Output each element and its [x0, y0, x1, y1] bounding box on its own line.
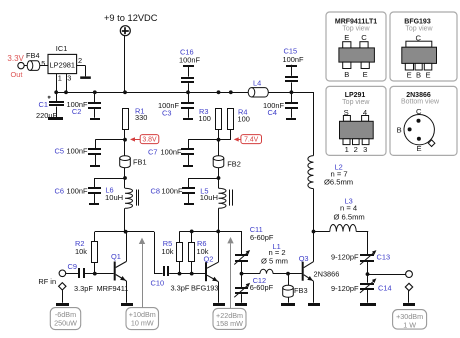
- svg-text:220uF: 220uF: [36, 111, 57, 120]
- svg-text:C9: C9: [68, 262, 77, 271]
- svg-text:+9 to 12VDC: +9 to 12VDC: [104, 13, 158, 23]
- svg-text:Ø6.5mm: Ø6.5mm: [324, 178, 353, 187]
- svg-text:B: B: [344, 70, 349, 79]
- svg-text:C8: C8: [151, 187, 160, 196]
- svg-text:E: E: [344, 33, 349, 42]
- svg-text:2N3866: 2N3866: [314, 269, 340, 278]
- svg-text:3: 3: [67, 74, 71, 83]
- svg-text:E: E: [416, 144, 421, 153]
- svg-text:C5: C5: [55, 146, 64, 155]
- svg-text:C13: C13: [377, 252, 391, 261]
- svg-text:3.3V: 3.3V: [7, 54, 24, 63]
- svg-text:IC1: IC1: [56, 44, 68, 53]
- svg-text:RF in: RF in: [38, 277, 56, 286]
- svg-text:3.3pF: 3.3pF: [74, 284, 93, 293]
- svg-text:5: 5: [41, 59, 45, 68]
- svg-text:250uW: 250uW: [54, 318, 77, 327]
- svg-text:Top view: Top view: [405, 26, 433, 33]
- svg-text:100: 100: [238, 115, 250, 124]
- svg-text:100nF: 100nF: [179, 56, 200, 65]
- svg-text:Top view: Top view: [342, 26, 370, 33]
- svg-text:10 mW: 10 mW: [131, 318, 154, 327]
- svg-text:B: B: [416, 71, 421, 80]
- svg-text:C: C: [416, 107, 422, 116]
- svg-text:Out: Out: [11, 70, 23, 79]
- svg-text:C3: C3: [162, 108, 171, 117]
- svg-text:Bottom view: Bottom view: [401, 99, 440, 106]
- svg-text:2: 2: [78, 56, 82, 65]
- svg-text:C14: C14: [378, 284, 392, 293]
- svg-text:3.8V: 3.8V: [142, 137, 157, 144]
- svg-text:Q3: Q3: [299, 254, 309, 263]
- svg-text:BFG193: BFG193: [191, 284, 219, 293]
- svg-text:n = 4: n = 4: [340, 204, 357, 213]
- svg-text:100nF: 100nF: [161, 148, 182, 157]
- svg-text:330: 330: [135, 113, 147, 122]
- svg-text:158 mW: 158 mW: [216, 319, 243, 328]
- svg-text:100nF: 100nF: [283, 55, 304, 64]
- svg-text:6-60pF: 6-60pF: [250, 233, 274, 242]
- svg-text:B: B: [397, 126, 402, 135]
- svg-text:6-60pF: 6-60pF: [250, 283, 274, 292]
- svg-text:MRF9411LT1: MRF9411LT1: [335, 18, 377, 25]
- svg-text:100nF: 100nF: [67, 146, 88, 155]
- svg-text:3.3pF: 3.3pF: [171, 283, 190, 292]
- svg-text:FB4: FB4: [26, 51, 40, 60]
- svg-text:10uH: 10uH: [200, 193, 218, 202]
- svg-text:BFG193: BFG193: [404, 18, 431, 25]
- svg-text:7.4V: 7.4V: [244, 137, 259, 144]
- svg-text:Q1: Q1: [111, 252, 121, 261]
- svg-text:C: C: [361, 33, 367, 42]
- svg-text:E: E: [363, 70, 368, 79]
- svg-text:E: E: [407, 71, 412, 80]
- svg-text:1: 1: [58, 74, 62, 83]
- svg-text:FB1: FB1: [133, 157, 147, 166]
- svg-text:C4: C4: [268, 108, 277, 117]
- svg-text:Top view: Top view: [342, 99, 370, 106]
- svg-text:Q2: Q2: [204, 254, 214, 263]
- svg-text:2: 2: [354, 145, 358, 154]
- svg-text:C7: C7: [148, 148, 157, 157]
- svg-text:L4: L4: [253, 79, 261, 88]
- svg-text:100nF: 100nF: [162, 187, 183, 196]
- svg-text:C6: C6: [55, 186, 64, 195]
- svg-text:9-120pF: 9-120pF: [331, 252, 359, 261]
- svg-text:1 W: 1 W: [403, 320, 416, 329]
- svg-text:100nF: 100nF: [67, 186, 88, 195]
- svg-text:LP291: LP291: [345, 92, 366, 99]
- svg-text:10k: 10k: [162, 247, 174, 256]
- svg-text:9-120pF: 9-120pF: [331, 284, 359, 293]
- svg-text:E: E: [425, 71, 430, 80]
- svg-text:C10: C10: [151, 278, 165, 287]
- svg-text:10uH: 10uH: [105, 193, 123, 202]
- svg-text:FB3: FB3: [294, 286, 308, 295]
- svg-text:100: 100: [199, 114, 211, 123]
- svg-text:MRF9411: MRF9411: [97, 284, 129, 293]
- svg-text:C1: C1: [39, 100, 48, 109]
- svg-text:C2: C2: [72, 107, 81, 116]
- svg-text:1: 1: [345, 145, 349, 154]
- svg-text:Ø 5 mm: Ø 5 mm: [261, 257, 288, 266]
- svg-text:3: 3: [363, 145, 367, 154]
- svg-text:Ø 6.5mm: Ø 6.5mm: [334, 213, 365, 222]
- svg-text:10k: 10k: [75, 247, 87, 256]
- svg-text:LP2981: LP2981: [50, 61, 75, 70]
- svg-text:FB2: FB2: [227, 160, 241, 169]
